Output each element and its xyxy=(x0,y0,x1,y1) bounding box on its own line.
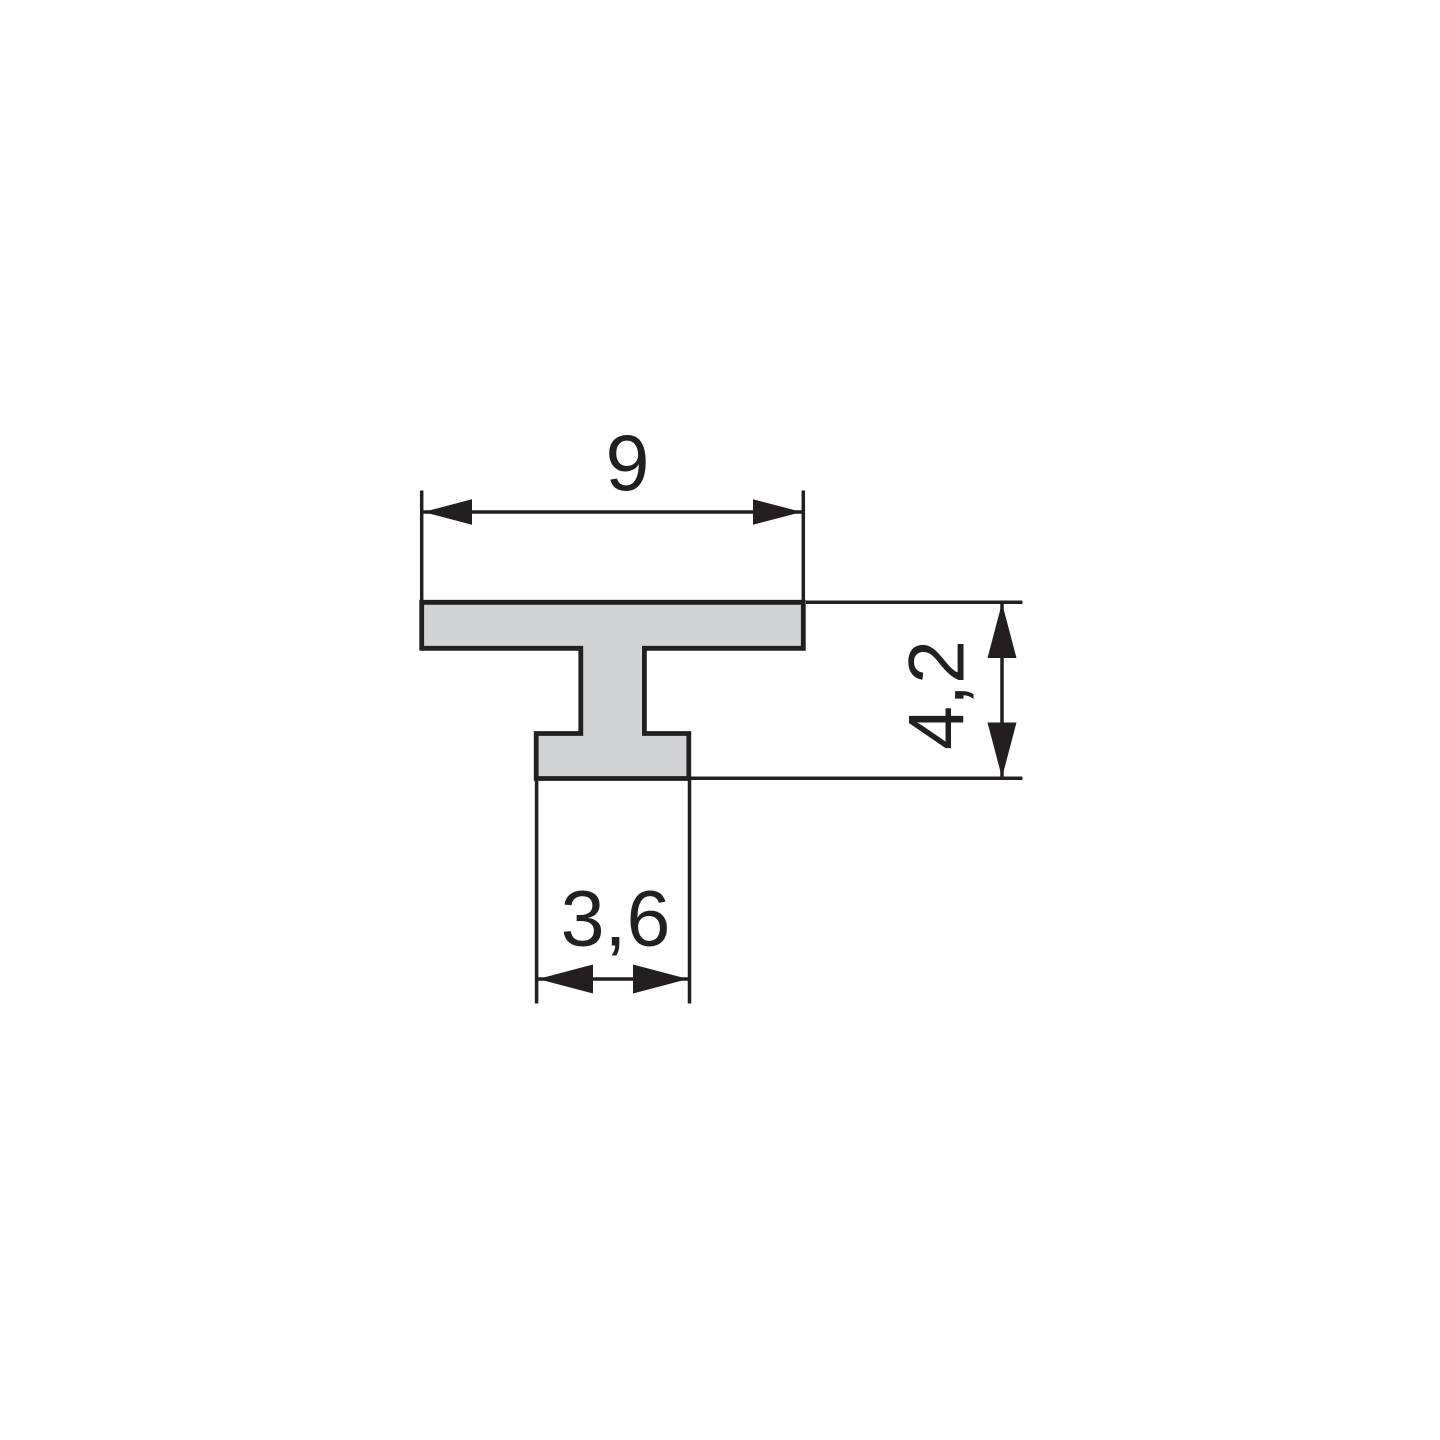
arrowhead right (dim 3,6) xyxy=(633,965,688,994)
extension line right (dim 3,6) xyxy=(688,779,692,1004)
extension line bottom (dim 4,2) xyxy=(691,777,1022,781)
arrowhead left (dim 3,6) xyxy=(538,965,593,994)
svg-text:3,6: 3,6 xyxy=(561,874,671,963)
dimension line (dim 3,6) xyxy=(537,977,689,981)
extension line right (dim 9) xyxy=(802,491,806,601)
svg-text:9: 9 xyxy=(606,418,650,507)
arrowhead down (dim 4,2) xyxy=(988,723,1017,778)
T-profile cross-section xyxy=(422,602,804,778)
arrowhead up (dim 4,2) xyxy=(988,603,1017,658)
extension line left (dim 9) xyxy=(420,491,424,601)
dimension line (dim 4,2) xyxy=(1000,603,1004,778)
dimension line (dim 9) xyxy=(423,510,802,514)
arrowhead left (dim 9) xyxy=(423,499,472,524)
svg-text:4,2: 4,2 xyxy=(892,640,981,750)
extension line left (dim 3,6) xyxy=(535,779,539,1004)
arrowhead right (dim 9) xyxy=(753,499,802,524)
extension line top (dim 4,2) xyxy=(806,601,1022,605)
